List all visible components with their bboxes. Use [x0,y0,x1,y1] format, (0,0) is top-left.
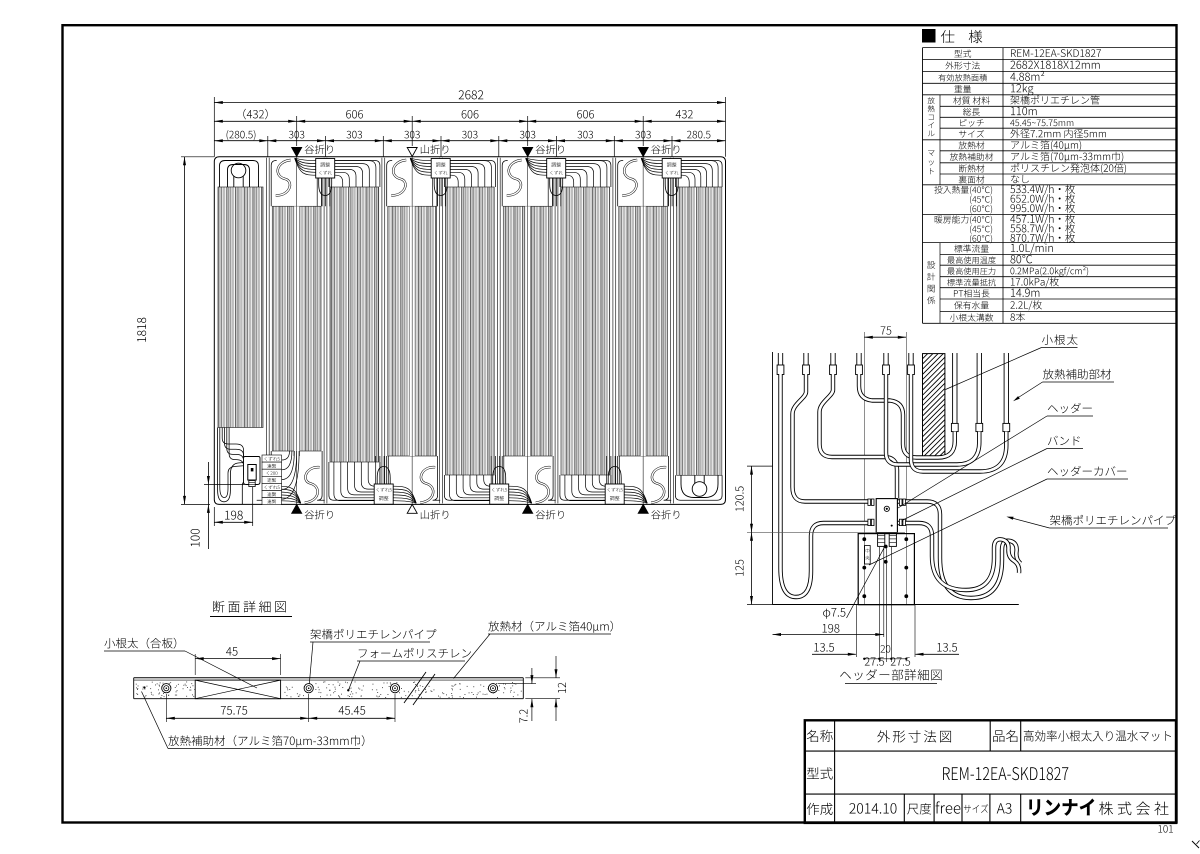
dim extension lines bottom [855,605,857,658]
pipe stubs left group [777,353,779,375]
dim 120.5 [747,465,773,467]
break marks [404,672,426,703]
mat header nipple [249,481,255,487]
title 品名 [993,730,1017,742]
fold marks 谷折り/山折り top [292,148,302,157]
header nipples [878,533,885,547]
fold top U loop at 296.7 [319,178,332,196]
header cover plate [858,534,914,605]
extension lines mat edges [213,97,215,157]
fold bottom fan-in at 527.7 [484,475,491,486]
label 放熱補助材 [168,735,364,747]
pipe run right 2 [897,523,1019,590]
stack exit curves [282,451,290,460]
seg1 bottom outer U pipe [218,428,244,502]
strip bottom [134,698,524,700]
fold top fan-out at 643.2 [681,161,718,187]
label 小根太 [1042,334,1078,344]
dim 27.5 pair [865,657,884,665]
spec header mark [923,30,936,43]
title 外形寸法図 [877,730,951,742]
fold top connector box at 527.7 [547,159,566,179]
fold bottom gather bundle at 412.2 [393,501,416,504]
pipe loop seg1 top [220,161,259,188]
title サイズ value A3 [997,803,1012,814]
strip foil top layer [134,677,524,679]
title サイズ [964,804,988,813]
section pipes [162,684,171,693]
header body [876,499,897,533]
spec header text 仕様 [941,30,982,43]
fold top fan-out at 412.2 [450,161,491,187]
dim 13.5 right [937,643,957,652]
header cover label [865,546,871,565]
pipe run 1 [781,374,869,597]
dim 20 [881,645,891,653]
pipe stubs right group [952,353,954,423]
heating coil dense columns [218,187,263,428]
label バンド [1048,436,1080,446]
fold top feed bundle at 412.2 [410,158,431,161]
fold top sub pipes at 412.2 [432,178,434,206]
fold top U loop at 527.7 [550,178,563,196]
spec row 暖房能力 [935,215,992,224]
fold top connector box at 412.2 [431,159,450,179]
fold top S-curve at 412.2 [391,160,406,195]
label 小根太(合板) [104,638,176,649]
fold bottom S-curve at 527.7 [536,467,551,502]
spec table grid [923,47,1177,49]
title リンナイ株式会社 [1029,799,1094,816]
fold bottom U loop at 527.7 [493,467,506,485]
fold top U loop at 412.2 [434,178,447,196]
fold top U loop at 643.2 [665,178,678,196]
fold bottom gather bundle at 643.2 [624,501,647,504]
dim 45.45 [339,706,366,715]
strip stipple texture [260,683,263,686]
extension lines segment bounds [267,136,269,157]
dim 13.5 left [814,643,834,652]
title 型式 [807,767,833,779]
fold bottom connector box at 412.2 [374,484,393,504]
dim 75.75 [221,706,247,715]
pipe loop seg9 bottom [681,475,718,497]
group label 放熱コイル [928,97,935,104]
fold top S-curve at 527.7 [507,160,522,195]
fold bottom U loop at 412.2 [377,467,390,485]
fold top fan-out at 296.7 [335,161,376,187]
label 放熱補助部材 [1043,369,1111,379]
fold bottom fan-in at 643.2 [599,475,606,486]
label ヘッダー [1048,403,1092,413]
mat header body [248,465,256,481]
fold bottom S-curve at 296.7 [305,467,320,502]
dim 75 pipe pitch [881,326,892,334]
fold bottom sub pipes at 643.2 [606,456,608,484]
fold bottom sub pipes at 527.7 [490,456,492,484]
extension lines folds upper [296,116,298,146]
fold top feed bundle at 296.7 [295,158,316,161]
group label マット [928,150,934,156]
sheet number 101 [1158,825,1172,833]
dim 125 [751,532,753,604]
fold bottom fan-in at 412.2 [368,462,375,486]
title 品名 value [1024,730,1171,741]
fold channels through dense [294,206,300,456]
panel pipe outlines [271,161,277,207]
section title 断面詳細図 [213,601,286,613]
mat header outline [244,457,261,485]
dim 198 detail [823,624,840,633]
dim row 280.5/303 [227,130,256,140]
fold bottom sub pipes at 412.2 [375,456,377,484]
fold top S-curve at 643.2 [622,160,637,195]
pipe run 6 [911,374,1006,472]
fold top feed bundle at 527.7 [526,158,547,161]
joist box with X [195,680,280,699]
dim 198 header offset [225,511,243,520]
fold bottom connector box at 527.7 [490,484,509,504]
header cover screws [862,537,866,541]
fold bottom S-curve at 412.2 [420,467,435,502]
panel divider lines [265,158,267,504]
fold bottom gather bundle at 527.7 [509,501,532,504]
title 名称 [807,730,833,742]
dim 1818 height [137,318,146,342]
fold bottom U loop at 643.2 [608,467,621,485]
fold lines through mat [296,157,298,504]
header detail boundary [772,352,774,605]
mat header label stack [262,455,282,462]
title block columns row1 [834,720,836,823]
pipe run right 1 [897,502,1020,599]
dim 7.2 [498,683,536,685]
dim 45 [226,647,237,656]
fold top feed bundle at 643.2 [641,158,662,161]
fold top fan-out at 527.7 [566,161,607,187]
fold bottom S-curve at 643.2 [651,467,666,502]
header band clips [868,499,871,505]
label フォームポリスチレン [359,648,471,658]
fold top sub pipes at 643.2 [663,178,665,206]
title 型式 value REM-12EA-SKD1827 [943,767,1068,780]
title 尺度 value free [936,801,961,813]
fold top sub pipes at 527.7 [547,178,549,206]
fold bottom connector box at 643.2 [605,484,624,504]
spec row 投入熱量 [934,186,992,195]
fold top connector box at 296.7 [316,159,335,179]
label 放熱材(アルミ箔40μm) [488,621,613,633]
pipe run 2 [793,374,869,502]
fold top S-curve at 296.7 [276,160,291,195]
header step outline [242,481,250,504]
spec table rows [954,50,971,58]
label 架橋ポリエチレンパイプ section [310,629,436,639]
title 作成 value 2014.10 [849,803,896,814]
fold bottom gather bundle at 296.7 [278,501,301,504]
corner mark [1192,841,1199,848]
seg1 bottom elbow pipes [222,428,243,461]
fold top connector box at 643.2 [662,159,681,179]
label ヘッダーカバー [1048,466,1126,476]
dim 100 notch height [204,484,245,486]
header detail title [840,669,941,680]
title 尺度 [907,803,931,814]
pipe run 5 [886,374,979,465]
label 架橋ポリエチレンパイプ detail [1050,515,1176,525]
dim 2682 overall width [459,90,484,99]
dim 12 [525,677,560,679]
pipe run 4 [859,374,955,458]
title 作成 [807,803,833,815]
dim row 432/606 [243,109,267,120]
mat outline [214,157,725,505]
dim phi7.5 [823,608,845,619]
title block frame [805,720,1176,823]
fold top sub pipes at 296.7 [316,178,318,206]
fold marks 谷折り/山折り bottom [292,504,302,513]
title block columns row3 [903,794,905,823]
joist hatch block [923,354,945,457]
pipe run 3 [820,374,898,499]
group label 設計関係 [927,261,935,269]
